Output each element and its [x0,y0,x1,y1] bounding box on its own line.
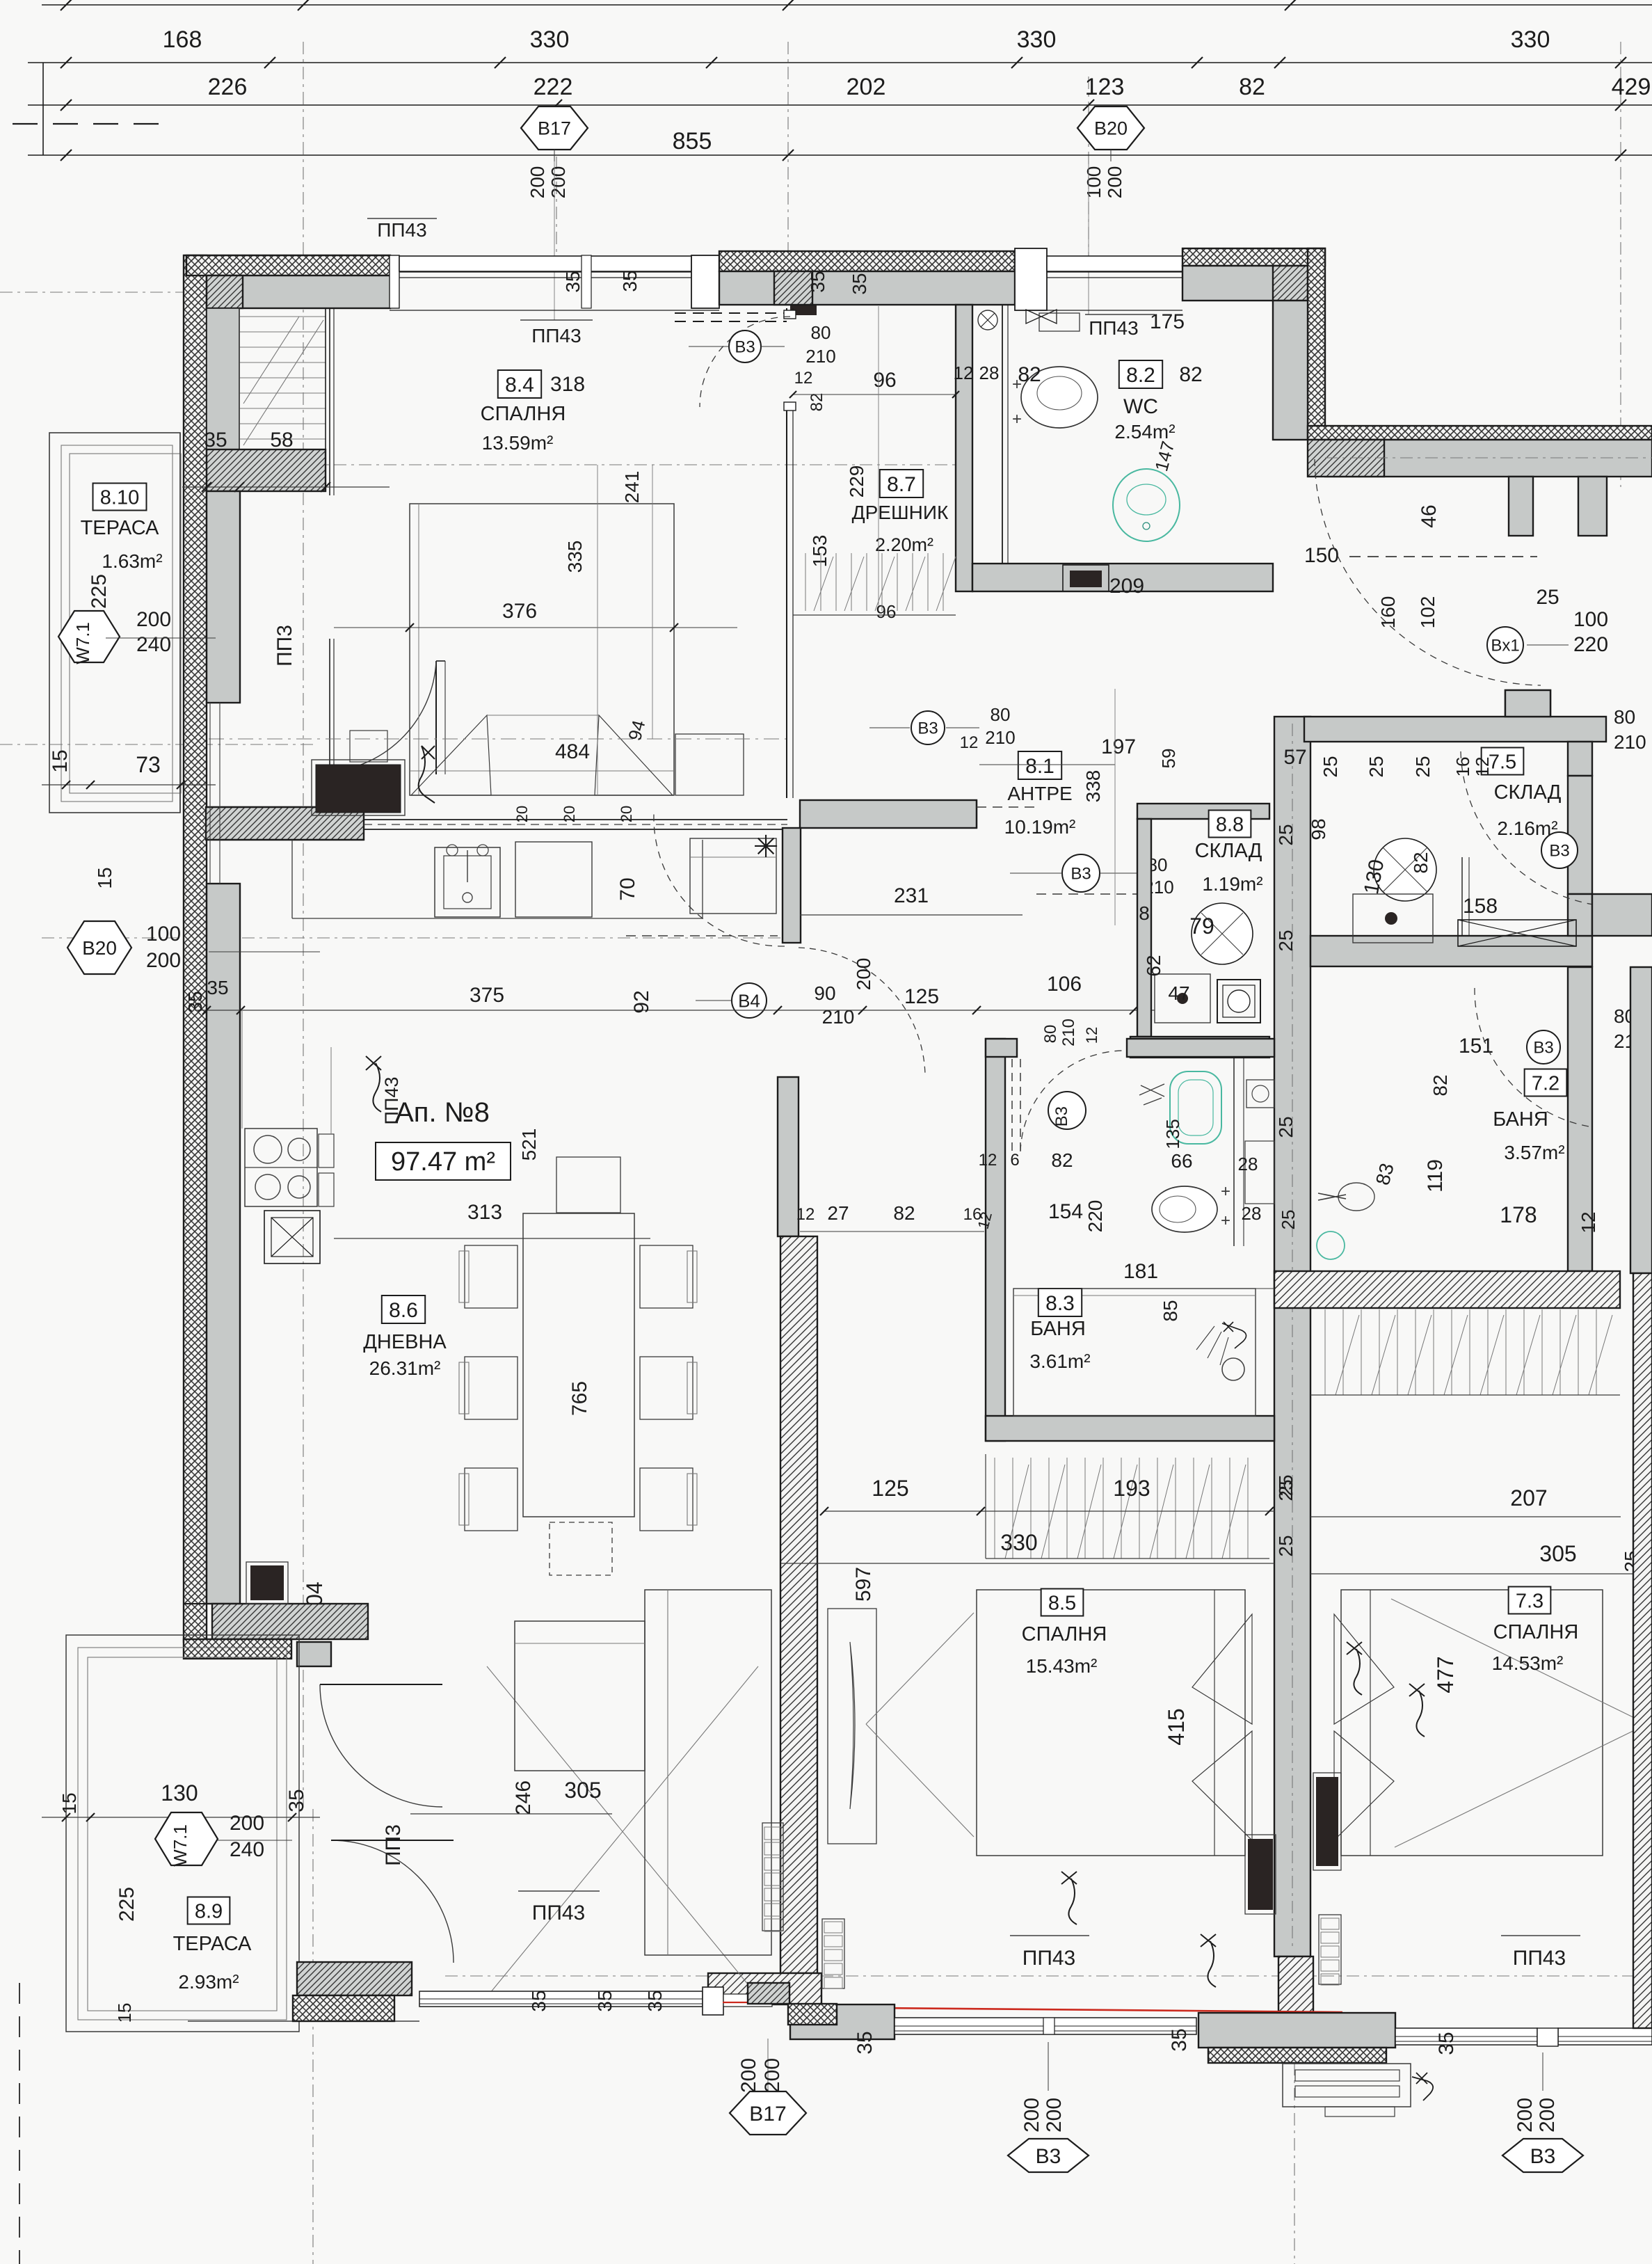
svg-text:200: 200 [1536,2098,1559,2133]
svg-text:202: 202 [847,74,886,100]
svg-text:ДРЕШНИК: ДРЕШНИК [852,502,949,523]
svg-text:200: 200 [230,1812,264,1835]
svg-text:415: 415 [1164,1708,1189,1745]
svg-text:225: 225 [88,574,111,609]
svg-text:СКЛАД: СКЛАД [1195,840,1262,862]
svg-text:25: 25 [1278,1210,1299,1230]
svg-text:70: 70 [616,877,639,900]
svg-text:35: 35 [184,991,206,1012]
svg-text:330: 330 [530,26,570,53]
svg-text:97.47 m²: 97.47 m² [391,1147,495,1177]
svg-text:226: 226 [208,74,248,100]
svg-text:25: 25 [1365,756,1387,777]
svg-text:47: 47 [1168,982,1189,1004]
svg-text:240: 240 [136,633,171,656]
svg-text:335: 335 [564,541,586,573]
svg-text:6: 6 [1010,1151,1019,1170]
svg-text:B3: B3 [1549,842,1569,861]
svg-text:25: 25 [1275,1116,1297,1138]
svg-text:13.59m²: 13.59m² [482,432,554,454]
svg-text:35: 35 [594,1990,616,2011]
svg-text:82: 82 [1429,1074,1451,1096]
svg-text:12: 12 [796,1205,815,1224]
svg-text:8.5: 8.5 [1048,1592,1076,1614]
svg-text:25: 25 [1275,930,1297,951]
svg-text:15: 15 [94,867,115,888]
svg-text:12: 12 [1472,757,1493,777]
svg-text:35: 35 [644,1990,666,2011]
svg-text:330: 330 [1511,26,1550,53]
svg-text:200: 200 [1020,2098,1043,2133]
svg-text:246: 246 [512,1780,535,1815]
svg-text:2.54m²: 2.54m² [1114,421,1175,443]
svg-text:ПП43: ПП43 [1023,1947,1076,1970]
svg-text:12: 12 [979,1151,997,1170]
svg-text:28: 28 [979,362,1000,383]
svg-text:765: 765 [568,1381,591,1416]
svg-text:154: 154 [1048,1200,1083,1223]
svg-text:200: 200 [761,2058,784,2093]
svg-text:W7.1: W7.1 [72,622,93,664]
svg-text:СПАЛНЯ: СПАЛНЯ [1493,1621,1579,1643]
svg-text:79: 79 [1189,914,1214,939]
svg-text:96: 96 [873,369,896,392]
svg-text:Ап. №8: Ап. №8 [395,1097,490,1128]
svg-text:B17: B17 [538,118,571,139]
svg-text:35: 35 [528,1990,550,2011]
svg-text:135: 135 [1162,1119,1183,1149]
svg-text:82: 82 [1018,363,1041,386]
svg-text:ПП3: ПП3 [273,625,296,667]
svg-text:B4: B4 [738,990,760,1011]
svg-text:35: 35 [562,271,584,292]
svg-text:ПП43: ПП43 [1089,317,1138,339]
svg-text:25: 25 [1536,586,1559,609]
svg-text:12: 12 [1083,1027,1100,1044]
svg-text:318: 318 [550,373,585,396]
svg-text:8.6: 8.6 [389,1299,418,1322]
svg-text:100: 100 [146,923,181,946]
svg-text:ПП3: ПП3 [382,1824,405,1866]
svg-text:28: 28 [1242,1203,1262,1224]
svg-text:ТЕРАСА: ТЕРАСА [173,1933,252,1955]
svg-text:B20: B20 [82,937,117,959]
svg-text:БАНЯ: БАНЯ [1030,1318,1086,1340]
svg-text:209: 209 [1109,575,1144,598]
svg-text:35: 35 [853,2031,876,2054]
svg-text:БАНЯ: БАНЯ [1493,1108,1548,1131]
svg-text:20: 20 [513,806,531,822]
svg-text:58: 58 [270,429,293,452]
svg-text:200: 200 [136,608,171,631]
svg-text:8.9: 8.9 [195,1900,223,1922]
svg-text:12: 12 [954,362,974,383]
svg-text:B20: B20 [1094,118,1128,139]
svg-text:521: 521 [518,1129,540,1161]
svg-text:26.31m²: 26.31m² [369,1357,441,1379]
svg-text:8.7: 8.7 [887,473,916,496]
svg-text:СПАЛНЯ: СПАЛНЯ [1022,1623,1107,1645]
svg-text:25: 25 [1275,1479,1297,1501]
svg-text:15: 15 [114,2003,135,2023]
svg-text:7.3: 7.3 [1516,1590,1543,1612]
svg-text:СПАЛНЯ: СПАЛНЯ [481,403,566,425]
svg-text:25: 25 [1275,1535,1297,1556]
svg-text:231: 231 [894,884,929,907]
svg-text:305: 305 [564,1778,601,1803]
svg-text:125: 125 [872,1476,908,1501]
svg-text:338: 338 [1082,770,1104,803]
svg-text:ПП43: ПП43 [1513,1947,1566,1970]
svg-text:ДНЕВНА: ДНЕВНА [363,1331,447,1353]
svg-text:80: 80 [1614,706,1635,728]
svg-text:B17: B17 [749,2103,786,2126]
svg-text:25: 25 [1275,824,1297,845]
svg-text:119: 119 [1424,1159,1447,1193]
svg-text:B3: B3 [1052,1106,1071,1126]
svg-text:Bx1: Bx1 [1491,637,1519,655]
svg-text:222: 222 [534,74,573,100]
svg-text:313: 313 [467,1201,502,1224]
svg-text:10.19m²: 10.19m² [1004,816,1076,838]
svg-text:100: 100 [1083,166,1105,199]
svg-text:+: + [1221,1211,1230,1230]
svg-text:+: + [1221,1182,1230,1201]
svg-text:15: 15 [49,749,72,772]
svg-text:8.4: 8.4 [505,374,534,397]
svg-text:35: 35 [204,429,227,452]
svg-text:200: 200 [1514,2098,1537,2133]
svg-text:✳: ✳ [753,830,779,864]
svg-text:2.20m²: 2.20m² [875,534,933,555]
svg-text:220: 220 [1573,633,1608,656]
svg-text:175: 175 [1150,310,1185,333]
svg-text:193: 193 [1113,1476,1150,1501]
svg-text:12: 12 [794,369,813,388]
svg-text:160: 160 [1377,596,1399,629]
svg-text:153: 153 [809,535,831,568]
svg-text:102: 102 [1417,596,1438,629]
svg-text:90: 90 [814,982,835,1004]
svg-text:7.2: 7.2 [1532,1072,1559,1094]
svg-text:82: 82 [893,1202,915,1224]
svg-text:WC: WC [1123,395,1158,418]
svg-text:220: 220 [1084,1200,1106,1233]
svg-text:82: 82 [808,393,826,412]
svg-text:+: + [1012,410,1022,429]
svg-text:178: 178 [1500,1202,1537,1227]
svg-text:12: 12 [960,733,979,752]
svg-text:ПП43: ПП43 [531,325,581,346]
svg-text:СКЛАД: СКЛАД [1494,781,1562,804]
svg-text:35: 35 [807,271,828,292]
svg-text:ТЕРАСА: ТЕРАСА [81,517,159,539]
svg-text:ПП43: ПП43 [377,219,426,241]
svg-text:15.43m²: 15.43m² [1026,1655,1098,1677]
svg-text:46: 46 [1418,504,1441,527]
svg-text:225: 225 [115,1887,138,1922]
svg-text:305: 305 [1539,1541,1576,1566]
svg-text:597: 597 [852,1567,875,1602]
svg-text:59: 59 [1158,749,1179,769]
svg-text:158: 158 [1463,895,1498,918]
svg-text:B3: B3 [1530,2145,1556,2168]
svg-text:80: 80 [1041,1025,1060,1044]
svg-text:100: 100 [1573,608,1608,631]
svg-text:14.53m²: 14.53m² [1492,1652,1564,1674]
svg-text:28: 28 [1238,1154,1258,1174]
svg-text:25: 25 [1412,756,1434,777]
svg-text:181: 181 [1123,1260,1158,1283]
svg-text:197: 197 [1101,735,1136,758]
svg-text:B3: B3 [1070,865,1091,884]
svg-text:210: 210 [822,1006,855,1028]
svg-text:82: 82 [1410,852,1432,873]
svg-text:80: 80 [991,704,1011,725]
svg-text:1.63m²: 1.63m² [102,550,162,572]
svg-text:92: 92 [630,990,653,1013]
svg-text:477: 477 [1433,1656,1458,1693]
svg-text:8.1: 8.1 [1025,755,1054,778]
svg-text:1.19m²: 1.19m² [1202,873,1262,895]
svg-text:210: 210 [1059,1019,1078,1046]
svg-text:85: 85 [1160,1300,1181,1321]
svg-text:376: 376 [502,600,537,623]
svg-text:200: 200 [1104,166,1125,199]
svg-text:W7.1: W7.1 [170,1824,191,1867]
svg-text:429: 429 [1612,74,1651,100]
svg-text:35: 35 [207,977,228,998]
svg-text:200: 200 [547,166,569,199]
svg-text:210: 210 [985,727,1015,748]
svg-text:330: 330 [1017,26,1057,53]
svg-text:229: 229 [846,465,867,498]
svg-text:57: 57 [1283,746,1306,769]
svg-text:ПП43: ПП43 [532,1902,586,1924]
svg-text:207: 207 [1510,1485,1547,1510]
svg-text:2.93m²: 2.93m² [178,1971,239,1993]
svg-text:B3: B3 [1036,2145,1061,2168]
svg-text:ПП43: ПП43 [381,1077,402,1125]
svg-text:168: 168 [163,26,202,53]
svg-text:200: 200 [527,166,548,199]
svg-text:35: 35 [849,273,870,294]
svg-text:20: 20 [561,806,578,822]
svg-text:12: 12 [1578,1211,1599,1233]
svg-text:20: 20 [618,806,635,822]
svg-text:240: 240 [230,1838,264,1861]
svg-text:200: 200 [737,2058,760,2093]
svg-text:80: 80 [811,322,831,343]
svg-text:B3: B3 [917,719,938,738]
svg-text:330: 330 [1000,1530,1037,1555]
svg-text:15: 15 [58,1792,80,1814]
svg-text:82: 82 [1051,1149,1073,1171]
svg-text:8.3: 8.3 [1045,1292,1075,1315]
svg-text:8.2: 8.2 [1126,364,1155,387]
svg-text:210: 210 [1614,731,1646,753]
svg-text:82: 82 [1179,363,1202,386]
svg-text:66: 66 [1171,1150,1192,1172]
svg-text:200: 200 [146,949,181,972]
svg-text:35: 35 [619,270,641,292]
svg-text:B3: B3 [735,338,755,357]
svg-text:151: 151 [1459,1035,1493,1058]
svg-text:96: 96 [876,601,897,622]
svg-text:8: 8 [1139,902,1150,924]
svg-text:200: 200 [853,958,874,991]
svg-text:3.61m²: 3.61m² [1029,1350,1090,1372]
svg-text:200: 200 [1043,2098,1066,2133]
svg-text:210: 210 [805,346,835,367]
svg-text:25: 25 [1320,756,1341,777]
svg-text:73: 73 [136,752,161,777]
svg-text:241: 241 [621,471,643,504]
svg-text:123: 123 [1085,74,1125,100]
svg-text:16: 16 [1452,757,1473,777]
svg-text:35: 35 [285,1789,308,1812]
svg-text:3.57m²: 3.57m² [1504,1142,1564,1163]
svg-text:62: 62 [1143,955,1164,976]
svg-text:B3: B3 [1533,1039,1553,1058]
svg-text:130: 130 [161,1780,198,1805]
svg-text:АНТРЕ: АНТРЕ [1007,783,1072,804]
svg-text:8.10: 8.10 [100,486,139,509]
svg-text:106: 106 [1047,973,1082,996]
svg-text:98: 98 [1308,818,1329,840]
svg-text:125: 125 [904,985,939,1008]
svg-text:35: 35 [1168,2028,1191,2051]
svg-text:855: 855 [673,128,712,154]
svg-text:27: 27 [827,1202,849,1224]
svg-text:35: 35 [1435,2032,1458,2055]
svg-text:82: 82 [1239,74,1265,100]
svg-text:375: 375 [470,984,504,1007]
svg-text:8.8: 8.8 [1216,813,1244,836]
svg-text:484: 484 [555,740,590,763]
